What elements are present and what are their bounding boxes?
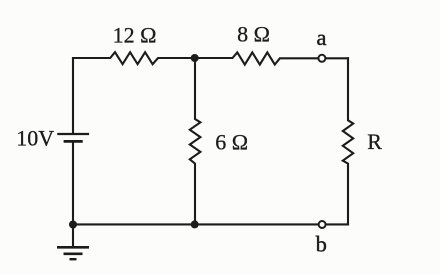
- svg-text:a: a: [317, 25, 327, 50]
- svg-text:8 Ω: 8 Ω: [237, 22, 270, 47]
- svg-text:6 Ω: 6 Ω: [215, 130, 248, 155]
- svg-text:10V: 10V: [16, 126, 54, 151]
- svg-text:R: R: [367, 129, 382, 154]
- svg-text:12 Ω: 12 Ω: [113, 23, 157, 48]
- svg-text:b: b: [316, 232, 327, 257]
